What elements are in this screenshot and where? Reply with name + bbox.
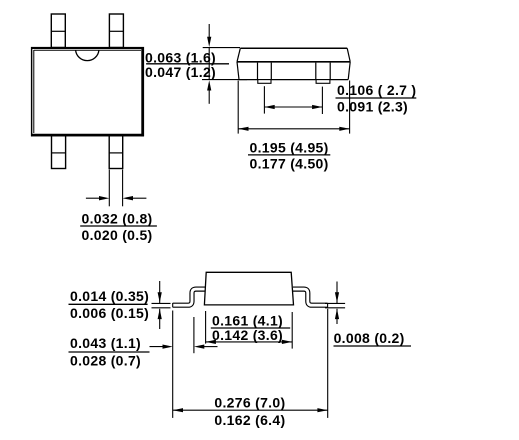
dim 0.195 extension lines	[237, 81, 239, 134]
svg-text:0.032 (0.8): 0.032 (0.8)	[82, 210, 153, 226]
dim 0.014/0.006 upper arrow	[158, 281, 162, 303]
lead bottom-right	[109, 136, 123, 169]
svg-text:0.142 (3.6): 0.142 (3.6)	[212, 327, 283, 343]
dim text 0.032 (0.8) over 0.020 (0.5)	[82, 210, 153, 243]
dim 0.032/0.020 dimension line right with arrow	[123, 196, 147, 200]
dim 0.032/0.020 dimension line left with arrow	[86, 196, 109, 200]
svg-text:0.091 (2.3): 0.091 (2.3)	[337, 98, 408, 114]
left gull-wing lead	[173, 289, 207, 307]
svg-text:0.063 (1.6): 0.063 (1.6)	[145, 49, 216, 65]
svg-text:0.195 (4.95): 0.195 (4.95)	[250, 139, 329, 155]
lead bottom-left	[52, 136, 66, 169]
dim text 0.161 (4.1) over 0.142 (3.6)	[212, 312, 283, 343]
dim 0.043 dimension line right part with arrow	[194, 345, 218, 349]
dim 0.008 lower arrow	[335, 309, 339, 324]
dim 0.063/0.047 body height: upper stem and arrow	[207, 24, 211, 80]
dim 0.142 dimension line with arrows	[206, 340, 293, 344]
right gull-wing lead	[293, 289, 328, 307]
lead top-left	[51, 14, 65, 48]
dim text 0.276 (7.0) over 0.162 (6.4)	[214, 395, 285, 428]
svg-text:0.014 (0.35): 0.014 (0.35)	[70, 288, 149, 304]
dim text 0.195 (4.95) over 0.177 (4.50)	[250, 139, 329, 171]
dim text 0.043 (1.1) over 0.028 (0.7)	[70, 335, 141, 368]
dim 0.063/0.047 extension line bottom	[202, 79, 247, 81]
svg-text:0.276 (7.0): 0.276 (7.0)	[214, 395, 285, 411]
dim 0.063/0.047 extension line top	[203, 47, 240, 49]
dim text 0.014 (0.35) over 0.006 (0.15)	[70, 288, 149, 321]
dim 0.276/0.162 dimension line with arrows	[173, 408, 328, 412]
dim text 0.008 (0.2)	[334, 330, 405, 346]
dim 0.032/0.020 extension lines	[108, 170, 110, 207]
dim 0.106 extension lines (lead centers)	[263, 86, 265, 113]
svg-text:0.020 (0.5): 0.020 (0.5)	[82, 227, 153, 243]
svg-text:0.006 (0.15): 0.006 (0.15)	[70, 305, 149, 321]
extension line left lead tip	[172, 311, 174, 418]
extension line body left corner	[205, 311, 207, 344]
lead thickness ticks right	[325, 302, 345, 304]
dim text 0.063 (1.6) over 0.047 (1.2)	[145, 49, 216, 80]
extension line lead bend	[193, 317, 195, 353]
svg-text:0.047 (1.2): 0.047 (1.2)	[145, 64, 216, 80]
side view lead 1	[258, 63, 272, 84]
svg-text:0.161 (4.1): 0.161 (4.1)	[212, 312, 283, 328]
svg-text:0.162 (6.4): 0.162 (6.4)	[214, 412, 285, 428]
package body (front view)	[204, 272, 293, 305]
svg-text:0.008 (0.2): 0.008 (0.2)	[334, 330, 405, 346]
svg-text:0.043 (1.1): 0.043 (1.1)	[70, 335, 141, 351]
pin-1 notch arc	[76, 50, 99, 60]
dim 0.014/0.006 lower arrow	[158, 309, 162, 329]
svg-text:0.177 (4.50): 0.177 (4.50)	[250, 155, 329, 171]
svg-text:0.106 ( 2.7 ): 0.106 ( 2.7 )	[337, 82, 416, 98]
dim 0.063/0.047 lower stem and arrow	[207, 80, 211, 104]
dim 0.195 dimension line with arrows	[238, 127, 349, 131]
dim 0.043 dimension line left part with arrow	[150, 345, 173, 349]
lead thickness ticks left	[152, 302, 171, 304]
extension line right lead tip	[327, 309, 329, 418]
body outline side view	[237, 48, 350, 79]
side view lead 2	[316, 63, 330, 84]
lead top-right	[109, 14, 123, 48]
svg-text:0.028 (0.7): 0.028 (0.7)	[70, 352, 141, 368]
dim 0.008 upper arrow	[335, 282, 339, 304]
package body (top view)	[31, 47, 144, 137]
extension line body right corner	[291, 312, 293, 349]
dim 0.106 dimension line with arrows	[264, 105, 322, 109]
dim text 0.106 (2.7) over 0.091 (2.3)	[337, 82, 416, 114]
